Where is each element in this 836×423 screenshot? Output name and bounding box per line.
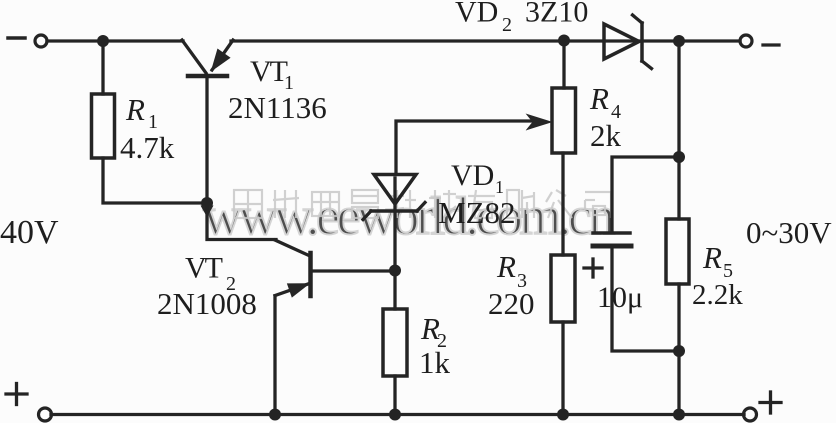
svg-text:R: R	[496, 249, 516, 284]
svg-text:4.7k: 4.7k	[120, 130, 175, 165]
svg-text:R: R	[589, 81, 609, 116]
terminal bottom-left	[39, 408, 52, 421]
wire capacitor top feed	[612, 157, 676, 231]
node R4 top	[558, 35, 570, 47]
wire VT1 base to VT2 collector	[207, 206, 276, 240]
terminal bottom-right	[744, 408, 757, 421]
svg-text:R: R	[702, 240, 722, 275]
svg-text:10μ: 10μ	[597, 281, 643, 314]
node R5 bottom	[673, 409, 685, 421]
wire R3 bottom	[561, 322, 564, 412]
svg-text:3Z10: 3Z10	[525, 0, 588, 29]
wire top rail right	[643, 39, 740, 42]
watermark chinese company glyphs	[234, 190, 613, 218]
node R3 bottom	[557, 409, 569, 421]
plus sign capacitor	[584, 266, 602, 269]
wire R2 top	[393, 273, 396, 309]
svg-text:0~30V: 0~30V	[746, 215, 832, 250]
terminal top-left	[35, 35, 47, 47]
wire top rail mid	[231, 39, 641, 42]
transistor VT1	[182, 40, 206, 73]
svg-text:MZ82: MZ82	[438, 195, 516, 230]
wire top rail left	[47, 39, 183, 42]
svg-text:VT: VT	[250, 55, 288, 88]
resistor R1	[92, 94, 115, 158]
wire VT2 emitter down	[273, 296, 276, 412]
minus sign top-right	[763, 43, 779, 46]
capacitor C1 10u	[593, 231, 630, 235]
wire bottom rail	[51, 413, 744, 416]
svg-text:1k: 1k	[419, 345, 451, 380]
wire R4 to R3	[561, 153, 564, 255]
node VD1 / R2 / VT2 base	[389, 265, 401, 277]
wire R1 top	[101, 44, 104, 94]
potentiometer R4	[552, 88, 576, 153]
arrow R4 wiper	[527, 115, 551, 130]
node R2 bottom	[389, 409, 401, 421]
minus sign top-left	[8, 36, 25, 40]
svg-text:2N1008: 2N1008	[157, 286, 257, 321]
svg-text:VT: VT	[185, 252, 223, 285]
resistor R5	[666, 219, 689, 284]
wire VD1 top / wiper feeder	[396, 121, 532, 174]
svg-text:2k: 2k	[590, 118, 622, 153]
plus sign bottom-left	[6, 392, 27, 395]
wire capacitor bottom	[612, 248, 676, 351]
node capacitor bottom	[673, 345, 685, 357]
arrow on VT1 base wire	[201, 206, 214, 218]
svg-text:2.2k: 2.2k	[692, 279, 743, 311]
wire R5 bottom	[677, 284, 680, 412]
zener diode VD1 MZ82	[374, 175, 416, 205]
diode VD2 3Z10	[604, 24, 639, 59]
node R1 top	[97, 35, 109, 47]
node capacitor feed	[673, 151, 685, 163]
node R5 top	[673, 35, 685, 47]
wire R1 bottom	[103, 158, 205, 203]
watermark latin www.eeworld.com.cn	[203, 186, 615, 246]
transistor VT2	[275, 240, 310, 256]
wire R5 column top	[677, 43, 680, 219]
resistor R2	[383, 309, 407, 376]
svg-text:220: 220	[488, 286, 535, 321]
svg-text:2N1136: 2N1136	[228, 90, 327, 125]
resistor R3	[551, 255, 575, 322]
svg-text:R: R	[125, 92, 145, 127]
wire R2 bottom	[393, 376, 396, 412]
svg-text:1: 1	[495, 177, 504, 197]
plus sign bottom-right	[760, 401, 781, 404]
svg-text:VD: VD	[451, 159, 494, 192]
node VT1 base / R1	[201, 197, 213, 209]
svg-text:VD: VD	[455, 0, 498, 29]
terminal top-right	[740, 35, 752, 47]
svg-text:40V: 40V	[0, 214, 59, 251]
svg-text:2: 2	[502, 14, 512, 36]
node VT2 emitter bottom	[269, 409, 281, 421]
wire R4 column	[562, 43, 565, 88]
